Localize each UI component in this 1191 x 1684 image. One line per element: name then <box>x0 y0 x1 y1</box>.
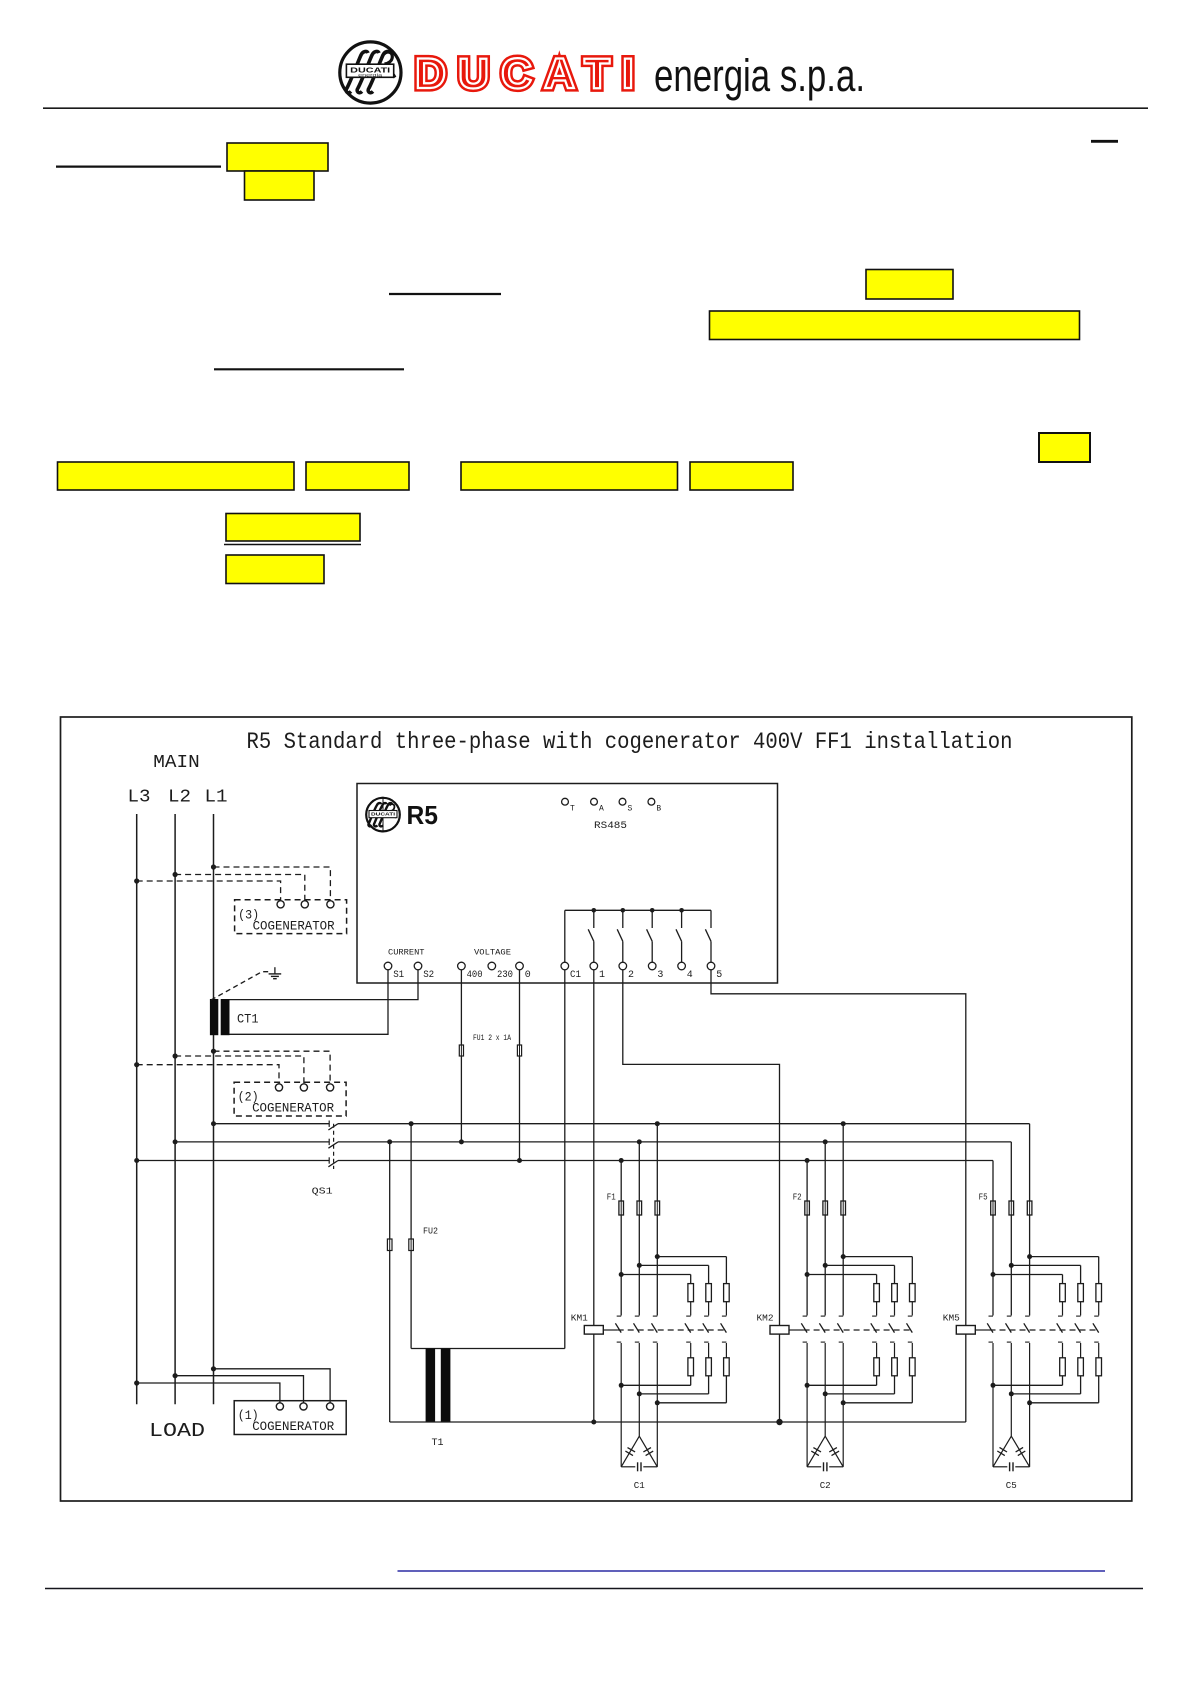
fuse F5 element <box>1009 1201 1014 1215</box>
resistor discharge top C5 <box>1060 1284 1066 1302</box>
junction bus-2 <box>621 908 626 913</box>
junction line3 FU1b tap <box>517 1158 522 1163</box>
junction line1 F1 tap <box>655 1121 660 1126</box>
svg-text:QS1: QS1 <box>312 1186 333 1197</box>
svg-text:FU2: FU2 <box>423 1226 438 1237</box>
cogenerator 3 box <box>235 900 347 934</box>
contactor KM2 contact <box>821 1315 826 1317</box>
fuse FU1a <box>459 1045 463 1056</box>
fuse F2 group <box>842 1124 844 1316</box>
cogenerator 3 terminal b <box>301 901 308 908</box>
svg-text:5: 5 <box>716 970 722 981</box>
wire resistor feed top <box>1027 1254 1032 1259</box>
terminal 5 <box>707 962 715 970</box>
relay contact K2 <box>622 910 624 928</box>
resistor discharge bottom C5 <box>1078 1358 1084 1376</box>
contactor KM2 contact <box>872 1315 877 1317</box>
fuse F1 element <box>637 1201 642 1215</box>
contactor KM2 contact <box>839 1315 844 1317</box>
Ducati energia emblem logo <box>340 42 401 103</box>
transformer CT1 <box>210 999 218 1035</box>
contactor KM1 contact <box>704 1315 709 1317</box>
wire L3 to cogenerator 2 <box>134 1062 139 1067</box>
wire phase line 1 (from L1) <box>214 1123 330 1125</box>
wire 0 sense <box>519 970 521 1161</box>
svg-text:L1: L1 <box>205 788 228 808</box>
resistor discharge top C2 <box>892 1284 898 1302</box>
resistor discharge bottom C2 <box>874 1358 880 1376</box>
contactor KM5 contact <box>1094 1315 1099 1317</box>
svg-text:R5: R5 <box>407 800 439 830</box>
contactor KM1 contact <box>686 1315 691 1317</box>
contactor KM5 contact <box>1058 1315 1063 1317</box>
relay contact K1 <box>593 910 595 928</box>
redacted dash top-right <box>1091 140 1118 143</box>
junction line2 F1 tap <box>637 1139 642 1144</box>
header rule <box>43 107 1148 109</box>
svg-text:L2: L2 <box>168 788 191 808</box>
svg-text:S2: S2 <box>423 970 434 981</box>
svg-text:CURRENT: CURRENT <box>388 949 425 958</box>
contactor KM1 coil <box>584 1326 603 1335</box>
contactor KM5 contact <box>989 1315 994 1317</box>
yellow highlight group <box>227 143 328 171</box>
resistor discharge bottom C1 <box>688 1358 694 1376</box>
wire terminal 1 to KM1 coil <box>593 970 595 1422</box>
resistor discharge bottom C2 <box>892 1358 898 1376</box>
R5 logo emblem <box>366 797 400 833</box>
footer black rule <box>45 1588 1143 1590</box>
wire L2 bus <box>174 814 176 1404</box>
fuse FU1b <box>517 1045 521 1056</box>
fuse F1 group <box>656 1124 658 1316</box>
resistor discharge top C5 <box>1096 1284 1102 1302</box>
svg-text:1: 1 <box>599 970 605 981</box>
svg-text:2: 2 <box>628 970 634 981</box>
svg-text:energia s.p.a.: energia s.p.a. <box>654 50 865 101</box>
junction line3 L3 tap <box>134 1158 139 1163</box>
terminal S2 <box>414 962 422 970</box>
cogenerator 3 terminal c <box>327 901 334 908</box>
fuse FU2a <box>387 1239 392 1251</box>
wire resistor return bottom <box>991 1383 996 1388</box>
svg-text:C2: C2 <box>820 1480 831 1491</box>
junction line2 FU1a tap <box>459 1139 464 1144</box>
wire L2 to cogenerator 2 <box>173 1053 178 1058</box>
wire C1 internal <box>564 910 566 962</box>
resistor discharge top C1 <box>724 1284 730 1302</box>
wire resistor return bottom <box>619 1383 624 1388</box>
wire S1 to CT1 <box>230 970 389 1035</box>
wire terminal 5 to KM5 coil <box>711 970 966 1422</box>
svg-text:R5 Standard three-phase with c: R5 Standard three-phase with cogenerator… <box>247 729 1013 755</box>
junction KM1 coil return <box>591 1420 596 1425</box>
svg-text:COGENERATOR: COGENERATOR <box>252 1420 334 1434</box>
fuse F2 element <box>823 1201 828 1215</box>
resistor discharge bottom C1 <box>724 1358 730 1376</box>
wire terminal 2 to KM2 coil <box>623 970 780 1422</box>
wire FU2b branch <box>410 1124 412 1349</box>
contactor KM1 contact <box>635 1315 640 1317</box>
terminal RS485-T <box>562 798 569 805</box>
resistor discharge top C2 <box>874 1284 880 1302</box>
terminal 230 <box>488 962 496 970</box>
svg-text:FU1 2 x 1A: FU1 2 x 1A <box>473 1033 512 1043</box>
svg-text:B: B <box>656 805 661 814</box>
junction bus-1 <box>592 908 597 913</box>
svg-text:KM5: KM5 <box>943 1314 960 1324</box>
svg-text:C1: C1 <box>634 1480 645 1491</box>
junction line1 L1 tap <box>211 1121 216 1126</box>
svg-text:DUCATI: DUCATI <box>371 812 395 817</box>
contactor KM5 coil <box>956 1326 975 1335</box>
svg-text:T: T <box>570 805 575 814</box>
svg-text:COGENERATOR: COGENERATOR <box>253 919 335 933</box>
svg-text:DUCATI: DUCATI <box>415 50 634 98</box>
svg-text:KM1: KM1 <box>571 1314 588 1324</box>
wire L3 to cogenerator 3 <box>134 878 139 883</box>
wire C1 to T1 <box>564 970 566 1349</box>
svg-text:COGENERATOR: COGENERATOR <box>252 1102 334 1116</box>
svg-text:KM2: KM2 <box>757 1314 774 1324</box>
ground symbol <box>211 972 270 1000</box>
svg-text:F2: F2 <box>793 1193 802 1203</box>
terminal S1 <box>384 962 392 970</box>
svg-text:LOAD: LOAD <box>149 1420 205 1442</box>
cogenerator 1 terminal b <box>300 1403 307 1410</box>
wire L3 bus <box>136 814 138 1404</box>
contactor KM1 linkage <box>603 1329 617 1331</box>
svg-text:MAIN: MAIN <box>153 753 199 773</box>
terminal 0 <box>516 962 524 970</box>
wire L2 to cogenerator 3 <box>173 872 178 877</box>
capacitor C5 <box>992 1385 994 1467</box>
contactor KM2 linkage <box>789 1329 804 1331</box>
terminal RS485-B <box>648 798 655 805</box>
wire resistor feed top <box>655 1254 660 1259</box>
transformer T1 <box>426 1349 436 1423</box>
svg-text:C5: C5 <box>1006 1480 1017 1491</box>
resistor discharge bottom C5 <box>1096 1358 1102 1376</box>
resistor discharge top C2 <box>910 1284 916 1302</box>
wire FU2a branch <box>389 1142 391 1422</box>
terminal C1 <box>561 962 569 970</box>
terminal RS485-S <box>619 798 626 805</box>
junction line1 FU2b tap <box>409 1121 414 1126</box>
capacitor C2 <box>806 1385 808 1467</box>
contactor KM2 coil <box>770 1326 789 1335</box>
cogenerator 2 terminal c <box>327 1084 334 1091</box>
fuse F5 element <box>991 1201 996 1215</box>
contactor KM1 contact <box>653 1315 658 1317</box>
wire resistor return bottom <box>805 1383 810 1388</box>
contactor KM1 contact <box>617 1315 622 1317</box>
footer blue rule <box>398 1570 1106 1572</box>
wire L1 to cogenerator 2 <box>211 1049 216 1054</box>
terminal 3 <box>648 962 656 970</box>
relay contact K5 <box>710 910 712 928</box>
cogenerator 2 box <box>234 1082 346 1116</box>
svg-text:RS485: RS485 <box>594 820 627 832</box>
wire T1 primary top <box>411 1348 565 1350</box>
contactor KM2 contact <box>890 1315 895 1317</box>
relay contact K3 <box>651 910 653 928</box>
contactor KM1 contact <box>722 1315 727 1317</box>
svg-text:3: 3 <box>657 970 663 981</box>
contactor KM5 contact <box>1076 1315 1081 1317</box>
relay contact K4 <box>681 910 683 928</box>
fuse F2 element <box>841 1201 846 1215</box>
resistor discharge top C5 <box>1078 1284 1084 1302</box>
wire internal relay bus <box>565 909 711 911</box>
fuse F1 element <box>655 1201 660 1215</box>
wire resistor feed top <box>841 1254 846 1259</box>
svg-text:0: 0 <box>525 970 531 981</box>
wire L2 to cogenerator 1 <box>173 1373 178 1378</box>
cogenerator 2 terminal b <box>300 1084 307 1091</box>
cogenerator 1 terminal c <box>327 1403 334 1410</box>
wire L1 to cogenerator 1 <box>211 1366 216 1371</box>
resistor discharge bottom C5 <box>1060 1358 1066 1376</box>
capacitor C1 <box>620 1385 622 1467</box>
fuse F5 group <box>1029 1124 1031 1316</box>
junction line2 F2 tap <box>823 1139 828 1144</box>
svg-text:F5: F5 <box>979 1193 988 1203</box>
junction line2 FU2a tap <box>387 1139 392 1144</box>
wire secondary bottom bus <box>390 1421 966 1423</box>
resistor discharge top C1 <box>688 1284 694 1302</box>
junction KM2 coil return <box>776 1419 782 1425</box>
terminal 1 <box>590 962 598 970</box>
resistor discharge top C1 <box>706 1284 712 1302</box>
fuse F1 element <box>619 1201 624 1215</box>
regulator U1 R5 box <box>357 784 778 984</box>
junction line3 F2 tap <box>805 1158 810 1163</box>
cogenerator 1 terminal a <box>276 1403 283 1410</box>
fuse F2 element <box>805 1201 810 1215</box>
junction bus-4 <box>679 908 684 913</box>
wire S2 to CT1 <box>230 970 419 1000</box>
svg-text:230: 230 <box>497 970 513 981</box>
resistor discharge bottom C1 <box>706 1358 712 1376</box>
disconnector QS1 <box>328 1121 330 1127</box>
cogenerator 1 box <box>234 1401 346 1435</box>
svg-text:T1: T1 <box>432 1437 444 1449</box>
schematic frame <box>61 717 1132 1501</box>
wire L3 to cogenerator 1 <box>134 1380 139 1385</box>
svg-text:F1: F1 <box>607 1193 616 1203</box>
resistor discharge bottom C2 <box>910 1358 916 1376</box>
cogenerator 3 terminal a <box>277 901 284 908</box>
contactor KM5 contact <box>1025 1315 1030 1317</box>
wire L1 bus <box>213 814 215 1404</box>
junction line2 L2 tap <box>173 1139 178 1144</box>
svg-text:energia: energia <box>358 73 383 78</box>
svg-text:CT1: CT1 <box>237 1012 259 1027</box>
contactor KM2 contact <box>908 1315 913 1317</box>
terminal 400 <box>458 962 466 970</box>
wire 400 sense <box>460 970 462 1142</box>
fuse FU2b <box>409 1239 414 1251</box>
svg-text:L3: L3 <box>128 788 151 808</box>
svg-text:4: 4 <box>687 970 693 981</box>
terminal 4 <box>678 962 686 970</box>
wire phase line 3 (from L3) <box>137 1160 330 1162</box>
svg-text:VOLTAGE: VOLTAGE <box>474 949 511 958</box>
contactor KM5 contact <box>1007 1315 1012 1317</box>
contactor KM5 linkage <box>975 1329 989 1331</box>
wire phase line 2 (from L2) <box>175 1141 329 1143</box>
svg-text:C1: C1 <box>570 970 581 981</box>
terminal 2 <box>619 962 627 970</box>
cogenerator 2 terminal a <box>275 1084 282 1091</box>
svg-text:S1: S1 <box>393 970 404 981</box>
junction line3 F1 tap <box>619 1158 624 1163</box>
contactor KM2 contact <box>803 1315 808 1317</box>
fuse F5 element <box>1027 1201 1032 1215</box>
svg-text:400: 400 <box>467 970 483 981</box>
wire L1 to cogenerator 3 <box>211 864 216 869</box>
svg-text:A: A <box>599 805 604 814</box>
svg-text:S: S <box>628 805 633 814</box>
junction bus-3 <box>650 908 655 913</box>
terminal RS485-A <box>591 798 598 805</box>
junction line1 F2 tap <box>841 1121 846 1126</box>
